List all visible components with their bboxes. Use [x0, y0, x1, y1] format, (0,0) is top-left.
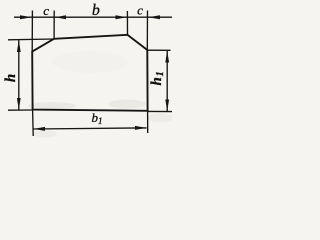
svg-text:c: c: [43, 3, 49, 18]
svg-text:h: h: [3, 74, 19, 82]
svg-text:b: b: [92, 2, 100, 19]
svg-text:c: c: [137, 3, 143, 18]
